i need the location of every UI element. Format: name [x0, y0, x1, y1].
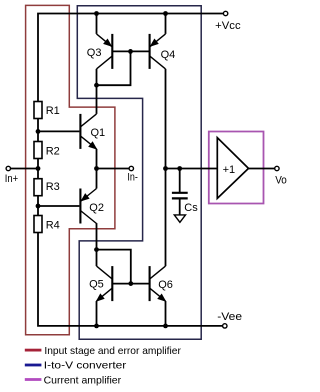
- ground symbol: [174, 215, 185, 222]
- transistor Q3 (PNP): [97, 34, 113, 69]
- current amplifier box (magenta outline): [209, 132, 264, 204]
- legend: red key (input stage): [25, 349, 42, 352]
- terminal Vo: [275, 166, 279, 170]
- svg-text:Q1: Q1: [91, 127, 106, 139]
- wire: Q5 emitter lead: [96, 301, 98, 326]
- node: In+ / R2-R3: [36, 166, 41, 171]
- svg-text:In+: In+: [5, 173, 18, 185]
- resistor R3: [34, 179, 42, 196]
- wire: top mirror diode connection: [97, 51, 131, 85]
- wire: R3-R4 link: [37, 196, 39, 216]
- svg-text:R4: R4: [46, 219, 60, 231]
- node: Q5 emitter / rail: [94, 324, 99, 329]
- wire: Q3 collector to Q1 collector: [96, 69, 98, 114]
- terminal In-: [129, 166, 133, 170]
- wire: Q3-Q4 base link: [112, 50, 149, 52]
- node: Q1 base / R1-R2: [36, 129, 41, 134]
- node: gain node: [163, 166, 168, 171]
- svg-text:Current amplifier: Current amplifier: [44, 374, 122, 386]
- transistor Q5 (NPN): [96, 266, 113, 302]
- svg-text:I-to-V converter: I-to-V converter: [44, 360, 127, 372]
- resistor R4: [34, 216, 42, 233]
- svg-text:R2: R2: [46, 145, 60, 157]
- wire: Q4 collector to gain node to Q6 collector: [165, 69, 167, 266]
- legend: magenta key (current amplifier): [25, 378, 42, 381]
- svg-text:Vo: Vo: [275, 175, 287, 187]
- wire: Q2 base: [38, 205, 79, 207]
- wire: buffer output to Vo: [249, 168, 275, 170]
- legend: blue key (I-to-V converter): [25, 364, 42, 367]
- node: Q3 emitter / rail: [94, 11, 99, 16]
- svg-text:Input stage and error amplifie: Input stage and error amplifier: [44, 345, 181, 357]
- wire: +Vcc top rail and R1 top lead: [38, 14, 223, 102]
- resistor R1: [34, 102, 42, 119]
- node: Q4 emitter / rail: [163, 11, 168, 16]
- node: top mirror bases: [128, 49, 133, 54]
- capacitor Cs: [172, 169, 188, 215]
- terminal In+: [6, 166, 10, 170]
- transistor Q1 (NPN): [80, 114, 97, 150]
- svg-text:R3: R3: [46, 181, 60, 193]
- wire: Q3 emitter lead: [96, 14, 98, 34]
- wire: Q1 emitter / Q2 emitter / In- node: [96, 149, 98, 189]
- wire: R2-R3 link: [37, 159, 39, 179]
- wire: gain node to buffer input: [166, 168, 218, 170]
- wire: Q1 base: [38, 130, 79, 132]
- svg-text:Cs: Cs: [184, 202, 198, 214]
- svg-text:Q5: Q5: [89, 279, 104, 291]
- svg-text:R1: R1: [46, 105, 60, 117]
- node: emitters / In-: [94, 166, 99, 171]
- node: bottom mirror bases: [128, 281, 133, 286]
- op-amp buffer U1 (+1): [217, 138, 248, 199]
- svg-text:Q6: Q6: [158, 279, 173, 291]
- wire: bottom mirror diode connection: [97, 250, 131, 284]
- terminal -Vee: [223, 324, 227, 328]
- transistor Q4 (PNP): [150, 34, 166, 69]
- node: Cs tap: [177, 166, 182, 171]
- wire: In+ to resistor chain: [11, 168, 38, 170]
- node: Q2 base / R3-R4: [36, 204, 41, 209]
- wire: emitter node to In- terminal: [97, 168, 130, 170]
- wire: Q4 emitter lead: [165, 14, 167, 34]
- wire: Q6 emitter lead: [165, 301, 167, 326]
- svg-text:Q4: Q4: [161, 49, 176, 61]
- wire: Q2 collector to Q5 collector: [96, 223, 98, 266]
- I-to-V converter box (blue outline): [77, 6, 201, 339]
- terminal +Vcc: [223, 11, 227, 15]
- svg-text:Q2: Q2: [89, 202, 104, 214]
- svg-text:-Vee: -Vee: [217, 311, 242, 323]
- wire: Q5-Q6 base link: [112, 283, 149, 285]
- svg-text:+Vcc: +Vcc: [215, 20, 241, 32]
- input stage box (red outline): [26, 5, 115, 334]
- transistor Q6 (NPN): [150, 266, 167, 302]
- svg-text:In-: In-: [127, 172, 138, 184]
- svg-text:Q3: Q3: [87, 47, 102, 59]
- resistor R2: [34, 142, 42, 159]
- node: Q6 emitter / rail: [163, 324, 168, 329]
- transistor Q2 (PNP): [80, 189, 96, 224]
- wire: -Vee bottom rail and R4 bottom lead: [38, 233, 223, 326]
- node: Q3 collector (mirror input): [94, 83, 99, 88]
- svg-text:+1: +1: [223, 164, 236, 176]
- node: Q5 collector (mirror input): [94, 247, 99, 252]
- wire: R1-R2 link: [37, 119, 39, 142]
